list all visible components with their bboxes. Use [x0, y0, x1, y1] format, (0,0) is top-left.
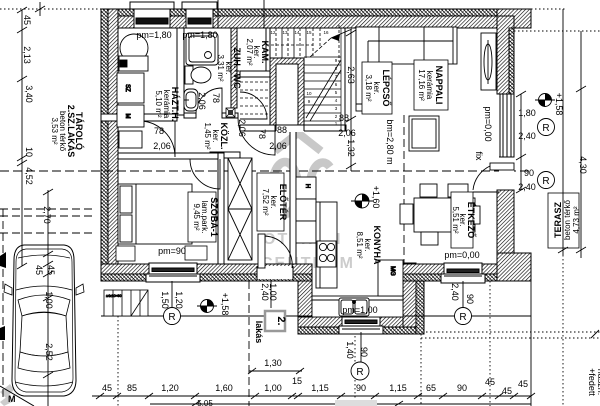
coffee table — [409, 116, 439, 151]
svg-text:lakás: lakás — [254, 321, 264, 344]
svg-text:2,06: 2,06 — [153, 141, 171, 151]
svg-text:13: 13 — [282, 30, 288, 35]
kitchen bay right wall — [403, 263, 416, 327]
label ETKEZO — [451, 192, 477, 248]
east wall lower (below terrace door) — [497, 190, 514, 264]
stair arrow upper — [331, 29, 352, 38]
fixed window east (pm=0,00 fix) — [500, 94, 514, 157]
svg-text:±4x10=90: ±4x10=90 — [106, 294, 122, 298]
window kitchen bay (pm=1,00) — [342, 317, 380, 334]
window W1 top (pm=1,80) — [134, 9, 170, 28]
wall hazt.h south — [101, 114, 177, 121]
svg-text:1,50: 1,50 — [160, 291, 170, 309]
rear bumper — [15, 382, 73, 386]
wall zuh+wc south — [184, 113, 196, 118]
rear window — [18, 352, 70, 372]
benchmark +1,58 bottom walk — [197, 300, 217, 313]
svg-text:12: 12 — [270, 30, 276, 35]
svg-text:90: 90 — [359, 347, 369, 357]
svg-text:90: 90 — [457, 383, 467, 393]
window dining south — [444, 263, 482, 281]
mirrors — [4, 284, 12, 295]
double sink — [339, 298, 369, 316]
label LEPCSO — [362, 62, 392, 114]
north wall — [101, 9, 531, 28]
left dim line — [21, 10, 23, 266]
svg-text:4,30: 4,30 — [578, 156, 588, 174]
1,30 dim line — [249, 370, 302, 372]
svg-text:2,13: 2,13 — [22, 46, 32, 64]
svg-text:45: 45 — [502, 386, 512, 396]
south wall left (szoba) — [101, 264, 312, 281]
svg-text:5,05: 5,05 — [197, 399, 213, 406]
bottom secondary dim line — [150, 403, 531, 405]
watermark text — [261, 231, 355, 272]
hood lines — [18, 255, 70, 258]
svg-text:R: R — [542, 123, 549, 134]
svg-text:pm=1,00: pm=1,00 — [342, 305, 377, 315]
szoba nightstands — [116, 246, 207, 261]
wall kozl east / stair west — [231, 28, 237, 108]
label ZUH.+WC — [216, 47, 242, 89]
door hazt.h — [139, 121, 175, 157]
stove — [317, 241, 336, 267]
svg-text:2,06: 2,06 — [197, 92, 207, 110]
svg-text:5,10 m²: 5,10 m² — [154, 90, 163, 117]
label TERASZ — [548, 193, 581, 248]
break diagonals — [306, 60, 341, 118]
section line A-A dashed across — [0, 170, 531, 172]
dryer SZ — [117, 73, 144, 103]
svg-text:+1,58: +1,58 — [554, 93, 564, 116]
label SZOBA-1 — [188, 192, 219, 242]
svg-text:1,32: 1,32 — [346, 139, 356, 157]
svg-text:fix: fix — [474, 152, 484, 162]
svg-text:10: 10 — [306, 91, 312, 96]
walkway bottom edge — [101, 315, 531, 317]
se corner — [497, 253, 531, 281]
svg-text:78: 78 — [154, 126, 164, 136]
svg-text:pm=0,00: pm=0,00 — [444, 250, 479, 260]
svg-text:H: H — [304, 184, 310, 188]
svg-text:+1,58: +1,58 — [220, 293, 230, 316]
tall units — [296, 177, 316, 199]
svg-text:78: 78 — [211, 93, 221, 103]
svg-text:pm=1,80: pm=1,80 — [182, 30, 217, 40]
svg-text:16: 16 — [323, 30, 329, 35]
svg-text:3,40: 3,40 — [24, 85, 34, 103]
svg-text:90: 90 — [356, 383, 366, 393]
terrace door east — [499, 157, 514, 190]
svg-text:2,06: 2,06 — [237, 119, 247, 137]
svg-text:1,40: 1,40 — [345, 341, 355, 359]
szoba east wall — [218, 153, 224, 264]
counter vertical — [316, 202, 337, 288]
svg-text:65: 65 — [426, 383, 436, 393]
svg-text:KONYHA: KONYHA — [372, 225, 382, 265]
kitchen bay left wall — [298, 281, 312, 334]
svg-text:R: R — [459, 312, 466, 323]
svg-text:1,00: 1,00 — [44, 291, 54, 309]
svg-text:4,73 m²: 4,73 m² — [572, 206, 581, 233]
watermark fragment bottom-left — [0, 384, 14, 398]
svg-text:15: 15 — [306, 30, 312, 35]
roof — [20, 313, 68, 357]
svg-text:1,15: 1,15 — [389, 383, 407, 393]
svg-text:2,52: 2,52 — [44, 343, 54, 361]
svg-text:5,51 m²: 5,51 m² — [451, 206, 460, 233]
watermark logo Otthon Centrum — [272, 133, 330, 215]
label HAZT.H. — [154, 87, 180, 122]
dashed kitchen/dining divide — [403, 115, 405, 264]
svg-text:17,16 m²: 17,16 m² — [417, 69, 426, 101]
parking dashed lines left — [0, 208, 95, 210]
gray box bottom — [335, 400, 377, 406]
svg-text:45: 45 — [46, 265, 56, 275]
west wall — [101, 9, 118, 281]
svg-text:R: R — [542, 176, 549, 187]
svg-text:R: R — [356, 367, 363, 378]
svg-text:1,45 m²: 1,45 m² — [203, 122, 212, 149]
top window reference lines — [217, 0, 219, 28]
svg-text:bm=2,80 m: bm=2,80 m — [385, 119, 395, 164]
svg-text:LÉPCSŐ: LÉPCSŐ — [381, 69, 392, 106]
svg-text:ELŐTÉR: ELŐTÉR — [278, 184, 289, 221]
door kozl to eloter — [238, 118, 275, 155]
toilet — [185, 66, 193, 84]
svg-text:1,00: 1,00 — [264, 383, 282, 393]
svg-text:2,07 m²: 2,07 m² — [245, 38, 254, 65]
bottom main dim line — [92, 395, 531, 397]
parking dim line — [39, 2, 41, 16]
wall kozl south / eloter — [210, 152, 240, 158]
bottom-middle vertical dim line (1,20 1,50) — [171, 281, 173, 308]
svg-text:90: 90 — [465, 294, 475, 304]
right 4,30 dim line — [562, 9, 564, 255]
svg-text:88: 88 — [339, 113, 349, 123]
south wall dining — [393, 264, 531, 281]
svg-text:1,20: 1,20 — [161, 383, 179, 393]
svg-text:pm=1,80: pm=1,80 — [136, 30, 171, 40]
dining window dim line — [462, 281, 464, 307]
stair dim line — [350, 30, 352, 171]
svg-text:15: 15 — [292, 376, 302, 386]
svg-text:2,40: 2,40 — [260, 283, 270, 301]
svg-text:2,06: 2,06 — [269, 141, 287, 151]
svg-text:beton térkő: beton térkő — [563, 199, 572, 240]
left edge fragments — [0, 252, 6, 268]
sofa L — [356, 27, 457, 64]
benchmark +1,58 top right — [535, 94, 555, 107]
svg-text:7,52 m²: 7,52 m² — [261, 188, 270, 215]
window W2 top (pm=1,80) — [186, 9, 213, 28]
dotted boundary top-left — [0, 8, 101, 10]
kam east wall — [265, 28, 267, 71]
svg-text:10: 10 — [24, 147, 34, 157]
label TAROLO 2.SZ.LAKAS — [50, 105, 85, 158]
svg-text:8,51 m²: 8,51 m² — [355, 231, 364, 258]
dashed apartment divide bottom — [248, 281, 250, 406]
svg-text:2,06: 2,06 — [338, 128, 356, 138]
stair core walls — [270, 58, 304, 125]
svg-text:+fedett: +fedett — [587, 368, 597, 396]
counter bottom run — [312, 296, 403, 317]
front door — [257, 266, 293, 279]
kitchen window dim line — [360, 332, 362, 362]
terrace dotted outline — [531, 8, 566, 10]
svg-text:45: 45 — [518, 379, 528, 389]
svg-text:9,45 m²: 9,45 m² — [192, 203, 201, 230]
svg-text:2,40: 2,40 — [450, 283, 460, 301]
svg-text:MG: MG — [389, 266, 395, 276]
svg-text:pm=90: pm=90 — [158, 246, 186, 256]
east wall upper — [497, 9, 531, 28]
kitchen bay bottom wall — [298, 317, 416, 327]
svg-text:1,60: 1,60 — [215, 383, 233, 393]
label ELOTER — [257, 173, 289, 231]
svg-text:R: R — [168, 312, 175, 323]
floor drain KOZL — [226, 108, 235, 117]
svg-text:45: 45 — [34, 265, 44, 275]
left flight dashes — [240, 81, 270, 83]
svg-text:2,70: 2,70 — [42, 206, 52, 224]
window szoba south (pm=90) — [149, 263, 197, 281]
dotted horizontal right of bay — [426, 331, 600, 333]
wall hazt.h / zuh+wc — [177, 28, 184, 115]
stair step numbers — [270, 30, 337, 126]
svg-text:78: 78 — [257, 129, 267, 139]
right flight treads — [304, 56, 341, 58]
label 2. lakas — [254, 311, 287, 343]
bottom-left diagonal cut — [0, 386, 34, 406]
svg-text:3,18 m²: 3,18 m² — [364, 74, 373, 101]
svg-text:pm=0,00: pm=0,00 — [483, 106, 493, 141]
dotted verticals bottom — [117, 316, 119, 406]
stair east boundary lines — [340, 28, 342, 131]
label KAM. — [245, 38, 270, 65]
hazt.h washbasin — [120, 34, 148, 62]
svg-text:1,20: 1,20 — [174, 291, 184, 309]
svg-text:1,30: 1,30 — [264, 358, 282, 368]
svg-text:85: 85 — [127, 383, 137, 393]
washbasin — [184, 89, 198, 111]
label KONYHA — [355, 225, 382, 265]
svg-text:2,63: 2,63 — [346, 66, 356, 84]
svg-text:M: M — [124, 114, 130, 119]
svg-text:SZOBA-1: SZOBA-1 — [209, 197, 219, 237]
door zuh+wc — [196, 88, 222, 114]
svg-text:1,80: 1,80 — [518, 108, 536, 118]
small sink — [119, 131, 142, 148]
label NAPPALI — [414, 60, 448, 110]
MG dishwasher — [378, 260, 403, 296]
svg-text:2,40: 2,40 — [518, 131, 536, 141]
svg-text:2.: 2. — [275, 316, 287, 325]
svg-text:haszn.: haszn. — [596, 369, 600, 396]
fireplace — [481, 33, 496, 90]
svg-text:3,31 m²: 3,31 m² — [216, 54, 225, 81]
shower tray — [186, 33, 218, 65]
wall eloter/konyha — [290, 131, 296, 264]
svg-text:45: 45 — [485, 377, 495, 387]
svg-text:45: 45 — [22, 15, 32, 25]
washer M — [117, 105, 144, 127]
upper flight treads — [281, 28, 283, 58]
stair south boundary — [240, 125, 346, 131]
svg-text:90: 90 — [524, 168, 534, 178]
svg-text:NAPPALI: NAPPALI — [434, 66, 444, 105]
szoba north wall — [118, 153, 224, 159]
svg-text:14: 14 — [294, 30, 300, 35]
door kozl to stairs landing — [240, 92, 267, 119]
svg-text:4,52: 4,52 — [24, 167, 34, 185]
svg-text:M: M — [8, 394, 16, 404]
svg-text:3,53 m²: 3,53 m² — [50, 117, 59, 144]
svg-text:SZ: SZ — [124, 84, 130, 92]
svg-text:88: 88 — [277, 125, 287, 135]
svg-text:2,40: 2,40 — [518, 182, 536, 192]
benchmark +1,60 kitchen — [351, 194, 373, 208]
svg-text:45: 45 — [102, 383, 112, 393]
svg-text:+1,60: +1,60 — [371, 186, 381, 209]
svg-text:TERASZ: TERASZ — [553, 201, 563, 238]
front door dim line — [270, 281, 272, 308]
label KOZL. — [203, 122, 229, 149]
wall kam south — [240, 71, 272, 77]
east window dim line — [520, 94, 522, 190]
door szoba-1 — [190, 159, 220, 189]
windshield — [18, 295, 70, 316]
svg-text:1,15: 1,15 — [311, 383, 329, 393]
